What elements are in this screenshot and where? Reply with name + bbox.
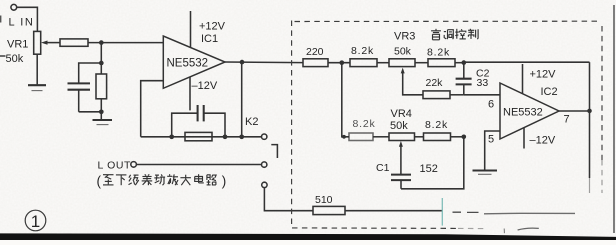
svg-text:NE5532: NE5532 bbox=[503, 107, 543, 119]
label text 至 bbox=[103, 175, 114, 185]
label text 动 bbox=[154, 174, 165, 185]
resistor R2 (series input) bbox=[60, 39, 88, 46]
switch K2 lever bbox=[271, 145, 277, 158]
wire feedback right vert bbox=[589, 62, 591, 111]
svg-text:K2: K2 bbox=[245, 116, 258, 128]
capacitor C1 bbox=[391, 174, 411, 176]
wire feedback bus bbox=[141, 136, 242, 138]
wire N1 down bbox=[100, 43, 102, 63]
dashed box top edge bbox=[295, 20, 602, 22]
svg-text:+12V: +12V bbox=[199, 21, 226, 33]
label text 制 bbox=[468, 29, 478, 39]
label text 养 bbox=[142, 174, 153, 185]
label text 下 bbox=[116, 175, 127, 185]
IC2 pin5 wire bbox=[485, 131, 500, 170]
svg-text:33: 33 bbox=[477, 77, 489, 89]
terminal L IN bbox=[11, 4, 17, 10]
page edge tick left mid bbox=[0, 55, 6, 57]
wire N2 to C4 branch bbox=[79, 63, 102, 83]
scan mark tick bbox=[503, 229, 505, 234]
label text 大 bbox=[180, 175, 191, 186]
label text 级 bbox=[129, 175, 139, 185]
page edge line right bbox=[613, 5, 615, 233]
label text 调 bbox=[444, 30, 454, 40]
svg-text:L IN: L IN bbox=[9, 17, 35, 29]
resistor R510 bbox=[313, 206, 345, 214]
wire IC2 output bbox=[559, 110, 590, 112]
resistor R8.2k c bbox=[349, 133, 373, 141]
capacitor C3 feedback bbox=[172, 113, 198, 137]
IC1 -12V pin wire bbox=[189, 77, 191, 111]
svg-text:IC2: IC2 bbox=[541, 86, 558, 98]
node N4 output bbox=[240, 60, 245, 65]
wire R510 right bbox=[345, 210, 442, 212]
VR3 wiper arrow bbox=[401, 68, 405, 74]
wire to K2 contact bbox=[242, 136, 262, 138]
wire IC1 inverting input bbox=[141, 81, 164, 137]
VR1 wiper arrow bbox=[41, 41, 48, 45]
node N1 bbox=[99, 40, 104, 45]
node N9 bbox=[461, 60, 466, 65]
wire r1d bbox=[455, 62, 464, 64]
wire r2a bbox=[373, 136, 389, 138]
node N3 bbox=[99, 109, 104, 114]
svg-text:–12V: –12V bbox=[530, 135, 556, 147]
wire VR1 to ground bbox=[36, 54, 38, 84]
dashed box right edge bbox=[601, 26, 603, 160]
terminal L OUT bbox=[131, 162, 137, 168]
svg-text:6: 6 bbox=[488, 99, 494, 111]
resistor R8.2k d bbox=[424, 133, 451, 141]
svg-text:–12V: –12V bbox=[192, 80, 218, 92]
node N7 bbox=[239, 134, 244, 139]
resistor R8.2k b bbox=[428, 59, 455, 67]
switch K2 contact a bbox=[262, 134, 267, 139]
svg-text:(: ( bbox=[97, 174, 102, 189]
wire N8 down to row2 bbox=[342, 63, 349, 137]
scan mark long line bbox=[484, 212, 575, 215]
dashed box left edge bbox=[291, 21, 293, 228]
wire output down to K2 bbox=[241, 62, 243, 137]
potentiometer VR4 body bbox=[389, 133, 415, 141]
potentiometer VR3 body bbox=[389, 59, 415, 67]
ground G3 bbox=[473, 169, 498, 171]
wire feedback top bus bbox=[464, 61, 590, 63]
scan mark teal line bbox=[441, 198, 443, 226]
wire R2 to IC1 input bbox=[88, 42, 163, 44]
node N2 bbox=[99, 61, 104, 66]
node N12 bbox=[587, 109, 592, 114]
capacitor C4 bbox=[68, 82, 91, 84]
svg-text:50k: 50k bbox=[394, 46, 412, 58]
IC2 +12V pin wire bbox=[522, 64, 524, 94]
wire r1b bbox=[377, 62, 389, 64]
figure number circle 1 bbox=[25, 210, 46, 231]
resistor R8.2k a bbox=[350, 59, 377, 67]
wire 22k right bbox=[450, 94, 464, 96]
svg-text:50k: 50k bbox=[6, 53, 24, 65]
svg-text:7: 7 bbox=[564, 114, 570, 126]
wire output down bbox=[589, 111, 591, 178]
wire L OUT bbox=[136, 164, 261, 166]
svg-text:+12V: +12V bbox=[530, 69, 557, 81]
label text 控 bbox=[455, 29, 466, 39]
label text 电 bbox=[195, 174, 204, 183]
svg-text:152: 152 bbox=[420, 163, 438, 175]
node N6 bbox=[223, 134, 228, 139]
wire contact c to R510 bbox=[264, 188, 313, 211]
ground G1 bbox=[28, 84, 46, 86]
wire to IC2 pin6 bbox=[464, 94, 500, 96]
wire C4 bottom to N3 bbox=[79, 111, 102, 113]
svg-text:8.2k: 8.2k bbox=[351, 45, 374, 57]
label text 放 bbox=[167, 174, 178, 185]
svg-text:510: 510 bbox=[315, 194, 333, 206]
svg-text:8.2k: 8.2k bbox=[353, 118, 376, 130]
svg-text:8.2k: 8.2k bbox=[425, 119, 448, 131]
ground G2 bbox=[93, 119, 113, 121]
wire input top bbox=[17, 7, 38, 31]
node N11 bbox=[462, 135, 467, 140]
svg-text:5: 5 bbox=[488, 134, 494, 146]
wire IC1 output bbox=[225, 61, 303, 64]
wire r1a bbox=[328, 62, 350, 64]
wire R3 down bbox=[100, 99, 102, 119]
resistor R22k bbox=[423, 91, 450, 99]
svg-text:IC1: IC1 bbox=[201, 33, 218, 45]
page edge tick top left bbox=[0, 16, 2, 23]
switch K2 contact c bbox=[262, 182, 267, 187]
potentiometer VR1 body bbox=[34, 31, 41, 54]
bottom black rule bbox=[0, 233, 616, 240]
svg-text:): ) bbox=[222, 174, 227, 189]
label text 路 bbox=[207, 175, 217, 185]
svg-text:8.2k: 8.2k bbox=[427, 47, 450, 59]
op-amp IC1 NE5532 bbox=[163, 36, 225, 88]
resistor R3 (to ground) bbox=[96, 74, 107, 99]
dashed box bottom edge bbox=[292, 227, 458, 230]
wire C1 loop to N11 bbox=[401, 137, 464, 189]
svg-text:L OUT: L OUT bbox=[98, 160, 132, 172]
resistor R220 bbox=[303, 59, 328, 67]
wire r1c bbox=[415, 62, 428, 64]
capacitor C2 bbox=[463, 63, 465, 78]
label text 音 bbox=[431, 29, 441, 40]
node N8 bbox=[339, 60, 344, 65]
svg-text:C1: C1 bbox=[376, 162, 390, 174]
wire N2 to R3 bbox=[100, 63, 102, 74]
wire r2b bbox=[415, 136, 424, 138]
svg-text:50k: 50k bbox=[390, 120, 408, 132]
node N5 bbox=[169, 134, 174, 139]
IC1 +12V pin wire bbox=[190, 11, 192, 48]
svg-text:VR3: VR3 bbox=[394, 31, 415, 43]
switch K2 contact b bbox=[262, 162, 267, 167]
IC2 -12V pin wire bbox=[523, 128, 525, 149]
resistor R4 feedback bbox=[185, 132, 212, 140]
node N10 bbox=[342, 135, 346, 139]
VR4 wiper arrow bbox=[399, 141, 403, 147]
op-amp IC2 NE5532 bbox=[500, 83, 559, 139]
scan mark dashes bbox=[453, 211, 479, 213]
svg-text:1: 1 bbox=[31, 212, 40, 231]
svg-text:220: 220 bbox=[306, 46, 324, 58]
wire r2c bbox=[451, 136, 464, 138]
svg-text:VR1: VR1 bbox=[7, 39, 28, 51]
scan mark squiggle bbox=[518, 228, 539, 230]
svg-text:NE5532: NE5532 bbox=[167, 58, 209, 70]
svg-text:22k: 22k bbox=[426, 77, 444, 89]
svg-text:VR4: VR4 bbox=[391, 108, 412, 120]
